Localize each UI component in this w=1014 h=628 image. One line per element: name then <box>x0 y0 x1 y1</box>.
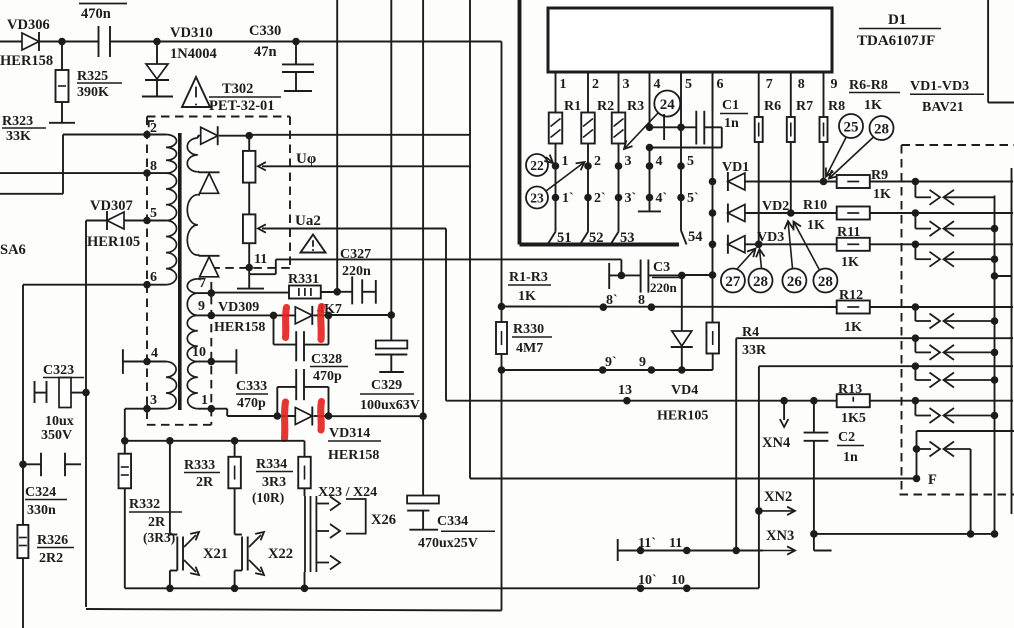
circle ref 26 with arrow <box>782 221 806 293</box>
svg-text:Ua2: Ua2 <box>295 213 321 229</box>
pin3 column nodes 3 and 3prime <box>615 144 636 232</box>
svg-text:4`: 4` <box>656 191 668 206</box>
diode VD306 <box>0 17 53 69</box>
transformer dashed boundary <box>147 117 290 425</box>
split diode D-b in winding <box>199 256 220 277</box>
svg-text:10ux: 10ux <box>45 414 74 429</box>
svg-text:1: 1 <box>201 393 208 408</box>
svg-text:28: 28 <box>874 121 889 137</box>
heater wire from right edge <box>917 430 1014 432</box>
arrow 24 to node 3 <box>624 113 658 149</box>
svg-text:R10: R10 <box>803 198 827 213</box>
connector X26 shell <box>346 499 396 534</box>
svg-text:4: 4 <box>151 346 158 361</box>
svg-text:28: 28 <box>753 274 768 290</box>
secondary winding pins 7-9 <box>187 276 215 319</box>
wire pin11 jog to Ua2 rail <box>249 259 621 274</box>
resistor R10 1K <box>803 198 915 233</box>
wire pin7 to R331 <box>211 292 289 294</box>
pad exit 51 <box>548 230 572 246</box>
capacitor C324 330n <box>19 453 81 518</box>
riser row6 to row10 <box>758 366 760 588</box>
pad exit 52 <box>580 230 604 246</box>
capacitor C330 47n <box>249 23 314 91</box>
svg-text:C3: C3 <box>653 260 670 275</box>
row 9 wire <box>502 369 713 371</box>
svg-text:R13: R13 <box>838 382 862 397</box>
row6 wire from riser <box>759 365 916 367</box>
diode VD3 <box>728 230 837 254</box>
wire node to C330 node <box>157 41 296 43</box>
row10 labels and nodes <box>637 573 691 592</box>
resistor R323 33K label <box>2 114 46 144</box>
svg-text:F: F <box>928 472 937 488</box>
capacitor C2 1n <box>804 397 864 534</box>
circle ref 22 with arrow to node 1 <box>526 154 553 176</box>
svg-text:X26: X26 <box>371 512 396 528</box>
bus from top edge to VD309 node <box>390 0 392 315</box>
resistor R332 2R 3R3 <box>119 441 182 589</box>
wire C330 node to corner right <box>296 41 502 43</box>
svg-text:3: 3 <box>625 154 632 169</box>
node junction VD314 anode <box>274 412 282 420</box>
svg-text:470p: 470p <box>313 369 342 384</box>
bottom rail of resistor block <box>125 585 759 593</box>
circle ref 25 with arrow <box>826 114 863 177</box>
svg-text:R12: R12 <box>839 288 863 303</box>
svg-text:(10R): (10R) <box>252 490 284 505</box>
svg-text:10`: 10` <box>638 573 657 588</box>
row 8 wire <box>502 306 837 309</box>
bus from top edge through VD314 node to C334 <box>419 0 427 496</box>
bus Ua2 to R13 row <box>446 229 448 401</box>
svg-text:7: 7 <box>766 77 773 92</box>
svg-text:X23 / X24: X23 / X24 <box>318 485 377 500</box>
svg-text:C334: C334 <box>437 514 468 529</box>
terminal stub left of pin 4 <box>123 349 147 374</box>
diode VD1 <box>722 160 837 191</box>
svg-text:VD1-VD3: VD1-VD3 <box>910 79 969 94</box>
label R1-R3 1K <box>508 270 551 304</box>
node junction R325 top <box>58 38 66 46</box>
row5 wire from riser <box>736 337 915 339</box>
riser heater to focus node <box>913 431 921 482</box>
svg-text:470p: 470p <box>237 396 266 411</box>
capacitor C334 470ux25V <box>407 496 495 552</box>
svg-text:HER105: HER105 <box>657 409 708 424</box>
Ua2 wiper arrow and line <box>258 213 446 233</box>
svg-text:1: 1 <box>562 154 569 169</box>
svg-text:1K: 1K <box>518 289 536 304</box>
svg-text:10: 10 <box>671 573 685 588</box>
svg-text:3: 3 <box>623 77 630 92</box>
svg-text:SA6: SA6 <box>0 242 26 258</box>
resistor R3 <box>612 99 644 144</box>
label D1 TDA6107JF <box>857 12 941 49</box>
spark gap row6 <box>912 362 1013 387</box>
svg-text:54: 54 <box>688 229 703 245</box>
resistor R13 1K5 <box>837 382 916 426</box>
svg-text:C330: C330 <box>249 23 281 39</box>
svg-text:VD4: VD4 <box>671 383 698 398</box>
bold board boundary <box>520 0 680 245</box>
node junction VD309 anode <box>270 312 278 320</box>
svg-text:10: 10 <box>192 345 206 360</box>
svg-text:9`: 9` <box>605 355 617 370</box>
pin2 column nodes 2 and 2prime <box>584 144 605 232</box>
svg-text:R3: R3 <box>627 99 644 114</box>
IC pin stubs and numbers <box>556 72 838 127</box>
svg-text:1K: 1K <box>844 320 862 335</box>
svg-text:C2: C2 <box>838 430 855 445</box>
node junction VD314 cathode <box>325 412 333 420</box>
svg-text:2R2: 2R2 <box>39 551 63 566</box>
wire pin8 net to left edge <box>0 172 147 174</box>
svg-text:6: 6 <box>717 77 724 92</box>
svg-text:C324: C324 <box>25 485 56 500</box>
pad exit 53 <box>611 230 635 246</box>
wire top right corner exit <box>988 0 1014 103</box>
svg-text:8`: 8` <box>606 293 618 308</box>
svg-text:R331: R331 <box>288 272 319 287</box>
spark gap row2 (R10 cathode) <box>912 209 1013 236</box>
transformer T302 label <box>209 81 281 114</box>
svg-text:2`: 2` <box>594 191 606 206</box>
resistor rail top wire <box>121 437 305 445</box>
wire VD309 out to bus <box>329 314 392 316</box>
svg-text:R7: R7 <box>796 99 813 114</box>
node 8 <box>638 293 655 311</box>
svg-text:R334: R334 <box>256 457 287 472</box>
svg-text:11`: 11` <box>638 536 656 551</box>
capacitor C1 1n <box>646 98 748 151</box>
diode VD310 1N4004 <box>142 25 217 97</box>
red mark left of VD314 <box>285 402 286 439</box>
svg-text:52: 52 <box>589 230 604 246</box>
resistor R331 4K7 <box>288 272 342 317</box>
svg-text:470n: 470n <box>81 6 111 22</box>
resistor R6 <box>755 99 781 248</box>
svg-text:5: 5 <box>150 206 157 221</box>
node 9prime <box>599 355 617 374</box>
svg-text:3: 3 <box>150 393 157 408</box>
row7 R13 wire <box>448 400 837 402</box>
svg-text:C323: C323 <box>43 363 74 378</box>
pin6 bus down to R4 <box>709 72 717 275</box>
pin 11 node <box>245 252 267 271</box>
svg-text:VD310: VD310 <box>170 25 213 41</box>
svg-text:11: 11 <box>254 252 267 267</box>
spark gap row4 (R12 G1) <box>912 303 1013 328</box>
primary winding pins 4-3 <box>143 346 176 413</box>
riser gap to bottom bus <box>970 449 972 534</box>
svg-text:HER158: HER158 <box>328 448 379 463</box>
Uphi wiper arrow and line <box>258 151 470 171</box>
capacitor C329 100ux63V <box>360 315 420 413</box>
svg-text:VD3: VD3 <box>757 230 784 245</box>
svg-text:220n: 220n <box>342 264 371 279</box>
node junction C323 right <box>82 389 90 397</box>
svg-text:390K: 390K <box>77 85 109 100</box>
svg-text:XN3: XN3 <box>766 528 794 544</box>
svg-text:BAV21: BAV21 <box>922 100 964 115</box>
svg-text:9: 9 <box>198 299 205 314</box>
bus right side of left block <box>501 42 503 611</box>
svg-text:R11: R11 <box>837 225 860 240</box>
focus potentiometer upper <box>243 136 256 183</box>
HV top diode to divider <box>198 126 249 145</box>
svg-text:4M7: 4M7 <box>516 341 543 356</box>
red mark left of VD309 <box>286 308 287 338</box>
svg-text:PET-32-01: PET-32-01 <box>209 98 275 114</box>
svg-text:XN2: XN2 <box>764 489 792 505</box>
svg-text:VD314: VD314 <box>329 426 370 441</box>
svg-text:VD307: VD307 <box>90 198 133 214</box>
circle ref 28c with arrow <box>794 222 838 293</box>
circle ref 27 with arrow <box>721 249 756 293</box>
wire main top rail left segment <box>0 41 22 43</box>
svg-text:XN4: XN4 <box>762 435 790 451</box>
capacitor C328 470p <box>274 315 349 384</box>
pin4 column nodes 4 and 4prime with ground <box>638 148 667 212</box>
bus from top edge to R331 node <box>336 0 338 292</box>
resistor R4 33R <box>706 271 767 370</box>
svg-text:11: 11 <box>669 536 682 551</box>
right edge vertical wire <box>1011 168 1013 514</box>
svg-text:8: 8 <box>638 293 645 308</box>
svg-text:350V: 350V <box>41 428 72 443</box>
XN3 mating stub <box>810 530 831 550</box>
svg-text:1n: 1n <box>724 116 739 131</box>
bottom common wire <box>814 530 998 538</box>
svg-text:R6: R6 <box>764 99 781 114</box>
svg-text:C329: C329 <box>371 378 402 393</box>
resistor R12 1K row8 <box>837 288 916 335</box>
riser row5 to row11 <box>735 338 737 550</box>
link bus to right edge wire <box>991 272 1012 280</box>
svg-text:22: 22 <box>530 158 544 173</box>
resistor R8 <box>820 99 846 185</box>
svg-text:33R: 33R <box>742 343 767 358</box>
svg-text:R326: R326 <box>37 533 68 548</box>
label R6-R8 1K <box>849 78 900 113</box>
svg-text:4: 4 <box>654 77 661 92</box>
wire pin6 net to left bus <box>23 285 147 628</box>
svg-text:28: 28 <box>818 274 833 290</box>
svg-text:1N4004: 1N4004 <box>170 46 217 62</box>
svg-text:5: 5 <box>687 154 694 169</box>
svg-text:HER105: HER105 <box>87 234 140 250</box>
svg-text:R323: R323 <box>2 114 33 129</box>
svg-text:2R: 2R <box>196 475 214 490</box>
svg-text:25: 25 <box>844 119 859 135</box>
focus row wire <box>470 478 917 480</box>
svg-text:24: 24 <box>660 97 676 113</box>
socket common bus <box>991 196 999 534</box>
resistor R325 390K <box>49 42 122 123</box>
spark gap X22 <box>234 488 236 534</box>
svg-text:R9: R9 <box>871 168 888 183</box>
connector XN3 <box>763 528 795 555</box>
svg-text:R333: R333 <box>184 458 215 473</box>
svg-text:R332: R332 <box>129 497 160 512</box>
spark gap row1 (R9 cathode) <box>912 178 1013 205</box>
wire pin9 to VD309 <box>211 314 273 316</box>
circle ref 28b with arrow <box>749 249 773 293</box>
svg-text:5`: 5` <box>687 191 699 206</box>
svg-text:HER158: HER158 <box>214 320 265 335</box>
resistor R326 2R2 <box>17 525 74 566</box>
wire VD306 to node R325 <box>39 41 62 43</box>
svg-text:HER158: HER158 <box>0 53 53 69</box>
diode VD4 HER105 <box>657 275 708 423</box>
capacitor C3 220n <box>609 259 683 295</box>
wire pin1 to VD314 row <box>211 409 277 416</box>
svg-text:2: 2 <box>150 121 157 136</box>
wire C3 node to pin6 bus <box>682 274 713 276</box>
svg-text:2: 2 <box>592 77 599 92</box>
svg-text:VD1: VD1 <box>722 160 749 175</box>
svg-text:R8: R8 <box>828 99 845 114</box>
svg-text:C328: C328 <box>311 352 342 367</box>
svg-text:9: 9 <box>639 355 646 370</box>
pin1 column nodes 1 and 1prime <box>552 144 574 232</box>
primary winding pins 2-8-5-6 <box>143 121 176 289</box>
warning triangle symbol <box>182 77 210 107</box>
node junction R331 C327 <box>333 288 341 296</box>
svg-text:C327: C327 <box>340 247 371 262</box>
svg-text:6: 6 <box>150 270 157 285</box>
resistor R2 <box>581 99 614 144</box>
svg-text:1K: 1K <box>807 218 825 233</box>
svg-text:R1: R1 <box>564 99 581 114</box>
red mark right of VD309 <box>317 307 325 340</box>
svg-text:9: 9 <box>831 77 838 92</box>
pin5 column nodes 5 and 5prime <box>677 127 698 230</box>
wire VD307 down left bus <box>85 221 87 608</box>
svg-text:R6-R8: R6-R8 <box>849 78 888 93</box>
svg-text:VD2: VD2 <box>762 199 789 214</box>
node junction VD4 row9 <box>678 366 686 374</box>
svg-text:7: 7 <box>199 276 206 291</box>
outer bottom wire <box>86 609 502 611</box>
IC D1 box <box>548 8 832 72</box>
svg-text:1K5: 1K5 <box>841 411 866 426</box>
wire pin3 down to resistor rail <box>125 409 147 441</box>
svg-text:R1-R3: R1-R3 <box>509 270 548 285</box>
node junction C330 top <box>292 38 300 46</box>
svg-text:23: 23 <box>530 190 544 205</box>
resistor R1 <box>549 99 581 144</box>
svg-text:C1: C1 <box>722 98 739 113</box>
svg-text:2: 2 <box>594 154 601 169</box>
svg-text:26: 26 <box>787 274 803 290</box>
secondary winding pins 10-1 <box>187 315 215 412</box>
resistor R7 <box>787 99 813 217</box>
svg-text:8: 8 <box>150 159 157 174</box>
resistor R330 4M7 on bus <box>496 303 552 374</box>
svg-text:VD309: VD309 <box>218 300 259 315</box>
svg-text:470ux25V: 470ux25V <box>418 536 478 551</box>
spark gap row3 (R11 cathode) <box>912 241 1013 267</box>
svg-text:47n: 47n <box>254 44 277 60</box>
bus Uphi to focus row <box>469 0 471 479</box>
CRT socket dashed box <box>900 145 1014 495</box>
svg-text:13: 13 <box>618 383 632 398</box>
svg-text:1K: 1K <box>864 98 882 113</box>
svg-text:TDA6107JF: TDA6107JF <box>857 33 935 49</box>
diode VD2 <box>728 199 837 223</box>
svg-text:5: 5 <box>685 77 692 92</box>
svg-text:1n: 1n <box>843 450 858 465</box>
svg-text:2R: 2R <box>148 515 166 530</box>
wire pin2 net to left edge <box>0 135 147 194</box>
label VD1-VD3 BAV21 <box>910 79 984 115</box>
diode VD314 HER158 <box>277 407 381 464</box>
red mark right of VD314 <box>317 402 325 431</box>
svg-text:Uφ: Uφ <box>296 151 316 167</box>
svg-text:VD306: VD306 <box>7 17 50 33</box>
split diode D-a in winding <box>199 172 220 193</box>
node 9 <box>639 355 655 374</box>
node junction VD310 top <box>153 38 161 46</box>
svg-text:330n: 330n <box>27 503 56 518</box>
svg-text:4: 4 <box>656 154 663 169</box>
svg-text:X22: X22 <box>268 546 293 562</box>
diode VD309 HER158 <box>214 300 329 335</box>
connector X23 X24 pins <box>305 485 378 588</box>
corner tick above pin 2 <box>149 121 154 127</box>
svg-text:1`: 1` <box>562 191 574 206</box>
capacitor C333 470p <box>236 369 329 416</box>
connector XN2 <box>755 489 795 515</box>
screen potentiometer lower <box>243 183 256 268</box>
row11 wire <box>618 539 763 561</box>
capacitor 470n <box>62 4 157 58</box>
svg-text:8: 8 <box>798 77 805 92</box>
resistor R11 1K <box>837 225 916 270</box>
resistor R333 2R <box>184 441 241 490</box>
svg-text:27: 27 <box>725 274 741 290</box>
node junction bus C329 <box>388 311 396 319</box>
svg-text:R325: R325 <box>77 69 108 84</box>
svg-text:T302: T302 <box>222 81 253 97</box>
transformer core <box>178 133 182 410</box>
circle ref 28a with arrow <box>829 116 894 179</box>
wire divider top to Uphi corner <box>249 134 470 136</box>
node 13 <box>618 383 632 405</box>
ground bar under pin 11 <box>237 274 264 288</box>
svg-text:51: 51 <box>557 230 572 246</box>
circle ref 24 <box>654 91 680 117</box>
svg-text:X21: X21 <box>203 546 228 562</box>
capacitor C323 10ux 350V <box>35 363 87 443</box>
HV secondary winding sections <box>187 136 200 293</box>
svg-text:1: 1 <box>560 77 567 92</box>
svg-text:3R3: 3R3 <box>262 475 286 490</box>
diode VD307 HER105 <box>86 198 147 250</box>
circle ref 23 with arrow to node 2 <box>526 162 585 209</box>
resistor R9 1K <box>837 168 916 202</box>
warning triangle near Ua2 <box>301 235 326 253</box>
svg-text:220n: 220n <box>650 280 678 295</box>
svg-text:1K: 1K <box>873 187 891 202</box>
wire VD314 out to bus <box>329 415 424 417</box>
terminal stub right of pin 10 <box>211 349 236 374</box>
resistor R334 3R3 10R <box>252 441 311 505</box>
svg-text:R330: R330 <box>513 322 544 337</box>
spark gap heater row <box>917 442 971 457</box>
